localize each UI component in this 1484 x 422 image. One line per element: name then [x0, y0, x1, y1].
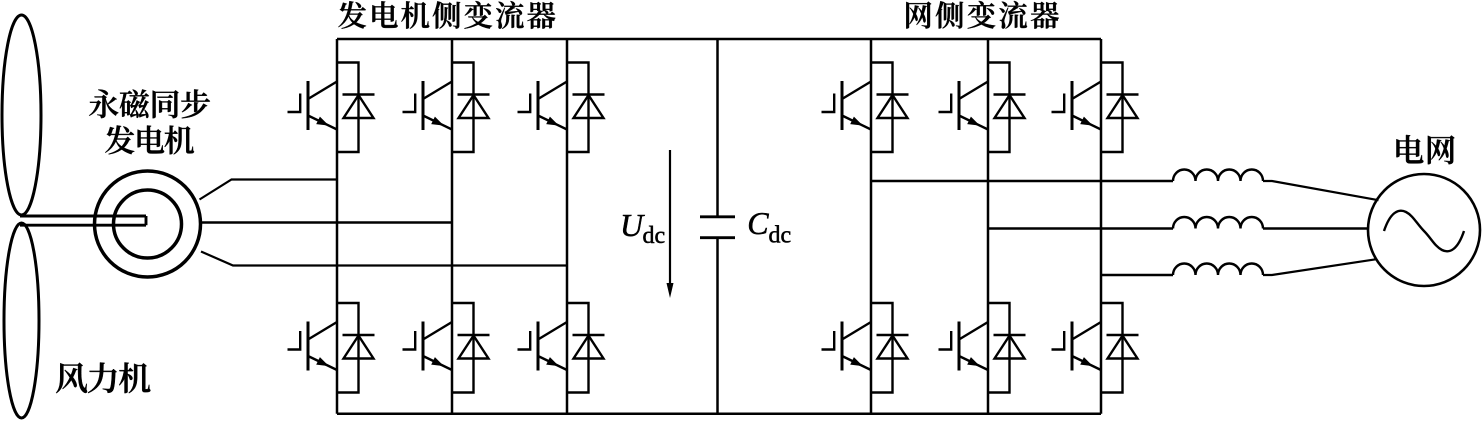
svg-text:U: U [620, 207, 645, 243]
svg-text:C: C [747, 205, 769, 241]
svg-text:dc: dc [769, 222, 792, 248]
svg-text:dc: dc [643, 223, 666, 249]
